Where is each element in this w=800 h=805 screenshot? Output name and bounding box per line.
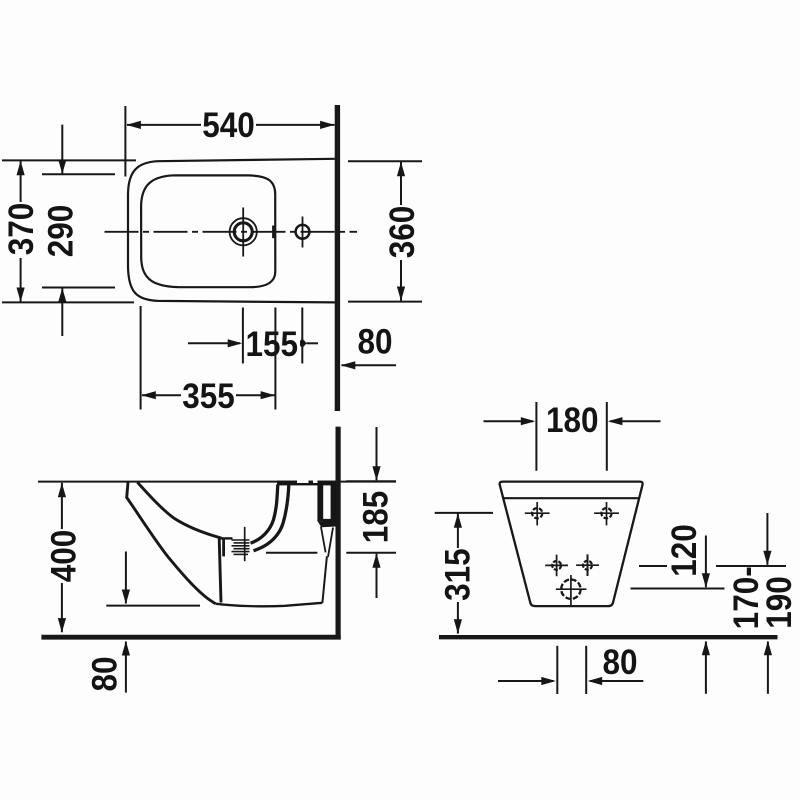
dimension 540: right arrowhead (320, 121, 335, 129)
dimension 120: upper arrowhead (702, 573, 710, 588)
upper fixing hole left: crosshair (525, 512, 550, 514)
dimension 170-190: upper outside arrow line (766, 513, 768, 565)
dimension 185: top arrowhead (372, 466, 380, 481)
bidet bottom edge (side) (216, 603, 323, 607)
dimension 360: label (384, 205, 423, 260)
rim band white dash 1 (297, 480, 309, 483)
svg-text:80: 80 (602, 644, 637, 683)
svg-text:120: 120 (666, 524, 705, 577)
dimension 370: bottom arrowhead (17, 288, 25, 303)
dimension 370: top extension line (2, 159, 136, 161)
drain level extension line (rear right) (631, 588, 725, 590)
dimension 370: top arrowhead (17, 161, 25, 176)
dimension 355: label (181, 378, 236, 417)
dimension 180: left arrow line (484, 420, 534, 422)
bidet body outline (plan) (128, 159, 335, 303)
floor line (rear view, thick horizontal) (439, 635, 778, 639)
dimension 180: label (546, 402, 599, 441)
dimension 370: bottom extension line (2, 301, 134, 303)
upper fixing hole left: circle (532, 508, 542, 518)
front outer profile (side) (127, 482, 216, 603)
svg-text:190: 190 (761, 576, 800, 629)
svg-text:370: 370 (3, 203, 42, 256)
drain trap center line (side) (244, 527, 246, 561)
rear drain crosshair (556, 588, 587, 590)
svg-text:315: 315 (439, 548, 478, 601)
tap hole vertical crosshair (302, 217, 304, 248)
drain hole vertical crosshair (242, 208, 244, 257)
dimension 170-190: label line 2 (761, 576, 800, 629)
dimension 180: right arrowhead (608, 417, 623, 425)
drain hole inner circle (plan) (234, 223, 252, 241)
dimension 170-190: label line 1 (728, 566, 767, 629)
dimension 185: bottom extension line (right of wall) (346, 552, 396, 554)
svg-text:80: 80 (357, 323, 392, 362)
dimension 290: label (42, 205, 81, 258)
wall line (side view, thick vertical) (336, 427, 341, 640)
dimension 80 (plan): label (357, 323, 392, 362)
upper fixing hole right: crosshair (594, 512, 619, 514)
dimension 185: top extension line (346, 480, 396, 482)
dimension 155: tap hole extension line (301, 308, 303, 364)
svg-text:290: 290 (42, 205, 81, 258)
dimension 170-190: upper arrowhead (763, 551, 771, 566)
dimension 355: left extension line (140, 306, 142, 410)
dimension 315: dimension line (457, 513, 459, 633)
tap mount lower wedge (side) (318, 521, 336, 527)
svg-text:400: 400 (45, 530, 84, 583)
dimension 540: left extension line (124, 106, 126, 177)
dimension 155: left arrow line (188, 342, 240, 344)
drain trap thread lines (side) (232, 540, 250, 554)
bidet inner rim (plan) (141, 175, 275, 287)
dimension 315: bottom arrowhead (454, 619, 462, 634)
dimension 290: top outside arrow line (61, 125, 63, 174)
bottom gap reference line (side) (106, 605, 200, 607)
dimension 290: top arrowhead (58, 160, 66, 175)
dimension 315: label (439, 548, 478, 602)
middle holes extension line (rear right) (639, 565, 668, 567)
svg-text:155: 155 (246, 326, 299, 365)
dimension 80 (rear): left extension line (556, 646, 558, 694)
dimension 80 (side): label (86, 656, 125, 691)
dimension 315: top extension line (435, 512, 493, 514)
dimension 290: top extension line (42, 173, 115, 175)
dimension 120: upper outside arrow line (705, 536, 707, 588)
bowl inner curve (side) (137, 482, 221, 538)
centerline (plan, dash-dot) (105, 231, 358, 233)
dimension 80 (plan): arrowhead at wall (341, 361, 356, 369)
dimension 370: dimension line (20, 161, 22, 302)
bidet top rim line (side) (38, 481, 396, 483)
leg back edge (side) (219, 538, 221, 602)
tap mount left black bar (side) (317, 483, 323, 522)
dimension 355: left arrowhead (141, 391, 156, 399)
dimension 400: bottom arrowhead (58, 618, 66, 633)
tap mount right black bar (side) (331, 483, 336, 523)
dimension 360: top arrowhead (397, 162, 405, 177)
dimension 290: bottom arrowhead (58, 288, 66, 303)
dimension 120: lower arrowhead (702, 641, 710, 656)
dimension 180: left arrowhead (521, 417, 536, 425)
middle fixing hole left: circle (552, 561, 561, 570)
dimension 185: bottom outside arrow line (376, 554, 378, 598)
rear drain circle (561, 580, 580, 599)
rim edge tick on centerline (272, 226, 276, 239)
dimension 540: left arrowhead (126, 121, 140, 129)
dimension 360: bottom arrowhead (397, 287, 405, 302)
svg-text:80: 80 (86, 656, 125, 691)
middle fixing hole right: crosshair (576, 564, 599, 566)
middle fixing hole left: crosshair (545, 564, 568, 566)
dimension 315: top arrowhead (454, 513, 462, 528)
dimension 170-190: lower arrowhead (764, 641, 772, 656)
dimension 360: dimension line (400, 162, 402, 301)
dimension 80 (side): bottom outside arrow line (125, 642, 127, 693)
dimension 80 (side): bottom arrowhead (122, 641, 130, 656)
dimension 80 (side): top arrowhead (122, 590, 130, 605)
upper fixing hole right: circle (601, 508, 611, 518)
floor line (side view, thick horizontal) (41, 635, 340, 640)
svg-text:180: 180 (546, 402, 599, 441)
dimension 400: top arrowhead (58, 483, 66, 498)
dimension 360: bottom extension line (348, 301, 422, 303)
svg-text:540: 540 (202, 107, 255, 146)
dimension 185: bottom extension line (inside bidet) (266, 552, 317, 554)
dimension 400: label (45, 529, 84, 583)
dimension 185: top outside arrow line (376, 427, 378, 480)
dimension 185: bottom arrowhead (372, 553, 380, 568)
middle holes extension line (rear right, outer segment) (716, 565, 786, 567)
dimension 400: dimension line (61, 483, 63, 632)
dimension 80 (rear): label (602, 644, 637, 683)
dimension 80 (rear): right arrowhead (588, 677, 603, 685)
dimension 180: left extension line (535, 402, 537, 471)
dimension 80 (rear): left arrow line (498, 680, 554, 682)
dimension 355: right extension line (274, 308, 276, 410)
wall line (plan view, thick vertical) (335, 105, 340, 411)
bidet rear outline (trapezoid) (500, 482, 643, 606)
dimension 540: label (201, 107, 256, 146)
dimension 540: dimension line (127, 124, 334, 126)
back hidden line left (side) (321, 527, 326, 553)
dimension 80 (plan): arrow line (342, 364, 397, 366)
drain trap left wall (side) (222, 539, 225, 557)
dimension 185: label (357, 491, 396, 544)
svg-text:355: 355 (182, 378, 235, 417)
back hidden line right (side) (328, 528, 333, 558)
back wall outer curve (side) (254, 485, 289, 551)
dimension 155: label (244, 326, 300, 365)
dimension 155: right stub line (307, 342, 319, 344)
tap hole circle (plan) (296, 225, 310, 239)
dimension 360: top extension line (348, 160, 422, 162)
dimension 180: right arrow line (610, 420, 660, 422)
dimension 80 (side): top outside arrow line (125, 552, 127, 604)
dimension 80 (rear): left arrowhead (541, 677, 556, 685)
dimension 155: left arrowhead (228, 339, 243, 347)
dimension 155: drain extension line (242, 308, 244, 364)
bidet top rim thick band (side) (277, 481, 336, 486)
back lower edge line (side) (322, 556, 327, 603)
dimension 120: lower outside arrow line (below floor) (705, 642, 707, 694)
tap mount slot bottom (side) (323, 519, 331, 523)
dimension 120: label (666, 524, 705, 577)
dimension 80 (rear): right extension line (585, 646, 587, 694)
svg-text:360: 360 (384, 206, 423, 259)
rear collar line (503, 497, 639, 499)
middle fixing hole right: circle (583, 561, 592, 570)
dimension 80 (rear): right arrow line (590, 680, 643, 682)
rim band white dash 2 (313, 480, 318, 483)
dimension 290: bottom outside arrow line (61, 288, 63, 336)
drain hole outer circle (plan) (230, 218, 257, 245)
svg-text:185: 185 (357, 491, 396, 544)
dimension 170-190: lower outside arrow line (below floor) (767, 642, 769, 694)
dimension 180: right extension line (606, 402, 608, 471)
dimension 355: dimension line (142, 394, 275, 396)
dimension 370: label (3, 202, 42, 258)
dimension 290: bottom extension line (42, 287, 115, 289)
dimension 155: right diamond tick (298, 339, 307, 349)
back wall inner curve (side) (251, 485, 278, 544)
dimension 355: right arrowhead (261, 391, 276, 399)
